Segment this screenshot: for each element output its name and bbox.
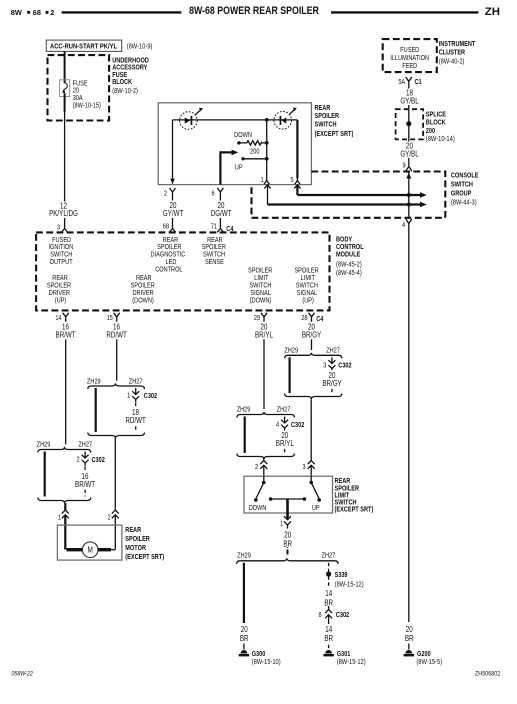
body control module box (dashed) — [36, 232, 329, 310]
svg-text:PK/YL/DG: PK/YL/DG — [49, 210, 78, 218]
svg-text:C302: C302 — [336, 611, 350, 619]
svg-text:058W-22: 058W-22 — [12, 671, 34, 678]
svg-text:SWITCH: SWITCH — [451, 181, 473, 189]
svg-text:29: 29 — [254, 314, 261, 322]
svg-text:GY/BL: GY/BL — [400, 151, 418, 159]
svg-text:GY/BL: GY/BL — [400, 98, 418, 106]
rear spoiler motor box — [57, 525, 122, 560]
svg-text:(8W-15-12): (8W-15-12) — [335, 581, 364, 589]
svg-text:BR/WT: BR/WT — [56, 332, 77, 340]
lamp right (illumination LED) — [274, 112, 292, 130]
svg-text:20: 20 — [308, 324, 315, 332]
TOP RIGHT — [383, 39, 476, 171]
svg-text:2: 2 — [108, 514, 112, 522]
wire ZH29 branch (thick) — [95, 388, 97, 432]
center bar — [271, 498, 305, 500]
svg-text:CONSOLE: CONSOLE — [451, 172, 479, 180]
svg-text:200: 200 — [250, 148, 260, 156]
wiper arm (from pin 6) — [220, 152, 232, 184]
connector C302 pin 1 — [135, 388, 137, 395]
svg-text:MODULE: MODULE — [336, 251, 360, 259]
svg-text:(UP): (UP) — [55, 297, 66, 305]
svg-text:REAR: REAR — [125, 527, 141, 535]
svg-text:20: 20 — [406, 626, 413, 634]
wire 20 GY/BL — [408, 139, 410, 161]
wire console pin 4 to G200 — [408, 228, 410, 622]
svg-text:REAR: REAR — [315, 104, 331, 112]
wire from switch pin 1 — [264, 185, 270, 188]
svg-text:18: 18 — [132, 409, 139, 417]
svg-text:(8W-15-5): (8W-15-5) — [416, 658, 442, 666]
svg-text:GROUP: GROUP — [451, 190, 472, 198]
svg-text:BLOCK: BLOCK — [112, 79, 132, 87]
svg-text:16: 16 — [82, 474, 89, 482]
node junctions on GY/BL feed — [407, 193, 411, 197]
svg-text:16: 16 — [113, 324, 120, 332]
wire 16 BR/WT (ZH27) — [84, 467, 86, 497]
wire left leg to pin 2 — [172, 120, 174, 184]
svg-text:3: 3 — [323, 362, 327, 370]
ground G301 — [325, 650, 332, 653]
svg-text:ZH27: ZH27 — [322, 552, 336, 560]
svg-text:BR/YL: BR/YL — [276, 440, 294, 448]
svg-text:8: 8 — [318, 611, 322, 619]
svg-text:BR/WT: BR/WT — [75, 482, 96, 490]
svg-text:INSTRUMENT: INSTRUMENT — [439, 40, 476, 48]
merge brace (RD/WT) — [88, 433, 145, 439]
svg-text:(8W-15-12): (8W-15-12) — [337, 658, 366, 666]
svg-text:(EXCEPT SRT): (EXCEPT SRT) — [125, 554, 164, 562]
svg-text:S339: S339 — [335, 571, 348, 579]
svg-text:OUTPUT: OUTPUT — [50, 258, 73, 266]
svg-text:SWITCH: SWITCH — [315, 121, 337, 129]
wire ZH29 branch (thick) to G300 — [243, 563, 245, 623]
GROUNDS — [237, 228, 443, 666]
wire 18 GY/BL — [408, 86, 410, 109]
svg-text:ZH27: ZH27 — [129, 378, 143, 386]
svg-text:ZH27: ZH27 — [326, 347, 340, 355]
svg-text:(8W-10-15): (8W-10-15) — [73, 102, 101, 110]
resistor 200 — [237, 141, 240, 144]
rear spoiler limit switch box — [244, 476, 333, 513]
svg-text:1: 1 — [280, 520, 284, 528]
svg-text:20: 20 — [406, 143, 413, 151]
svg-text:2: 2 — [255, 463, 259, 471]
svg-text:16: 16 — [62, 324, 69, 332]
CONSOLE GROUP — [252, 172, 479, 230]
svg-text:(EXCEPT SRT): (EXCEPT SRT) — [315, 131, 354, 139]
svg-text:ACC-RUN-START PK/YL: ACC-RUN-START PK/YL — [50, 43, 117, 51]
svg-text:BR/YL: BR/YL — [255, 332, 273, 340]
header rule right — [331, 11, 479, 13]
svg-text:C302: C302 — [144, 392, 158, 400]
merge brace (BR/GY) — [285, 394, 342, 400]
svg-text:8W-68 POWER REAR SPOILER: 8W-68 POWER REAR SPOILER — [189, 5, 319, 17]
node junction on bus — [265, 118, 269, 122]
svg-text:15: 15 — [107, 314, 114, 322]
wire 18 RD/WT (ZH27) — [135, 403, 137, 432]
splice S339 — [326, 571, 331, 576]
connector C302 pin 3 — [331, 357, 333, 363]
svg-text:SENSE: SENSE — [205, 258, 224, 266]
node FUSED ILLUMINATION FEED (dashed box) — [383, 39, 437, 72]
svg-text:(8W-10-9): (8W-10-9) — [127, 43, 153, 51]
svg-text:UP: UP — [235, 164, 243, 172]
svg-text:20: 20 — [284, 532, 291, 540]
svg-text:ZH506802: ZH506802 — [475, 670, 501, 678]
wire 20 DG/WT — [219, 196, 221, 225]
wire down to limit switch pin 3 — [310, 399, 312, 461]
DOWN contact — [263, 476, 265, 482]
svg-text:(8W-10-14): (8W-10-14) — [426, 136, 455, 144]
merge brace (BR/WT) — [38, 498, 91, 504]
console switch group box (dashed, wraps around switch) — [252, 172, 446, 218]
wire ACC to fuse — [64, 51, 66, 83]
svg-text:BLOCK: BLOCK — [426, 119, 446, 127]
svg-text:C302: C302 — [338, 362, 352, 370]
wire to motor pin 2 — [114, 438, 116, 510]
wire right leg to pin 1 — [266, 120, 268, 178]
wire 20 BR — [287, 525, 289, 548]
motor M rear spoiler — [82, 542, 98, 558]
wire ZH29 branch (thick) — [289, 357, 291, 393]
svg-text:BR/GY: BR/GY — [302, 332, 322, 340]
wire UP contact — [241, 157, 244, 160]
svg-text:(8W-45-2): (8W-45-2) — [336, 261, 362, 269]
svg-text:RD/WT: RD/WT — [106, 332, 127, 340]
svg-text:18: 18 — [406, 90, 413, 98]
svg-text:5: 5 — [290, 177, 294, 185]
wire 20 GY/WT — [172, 196, 174, 225]
svg-text:FUSED: FUSED — [400, 47, 419, 55]
svg-text:2: 2 — [76, 456, 80, 464]
svg-text:ZH29: ZH29 — [37, 441, 51, 449]
limit switch pin 1 below — [286, 513, 289, 520]
svg-text:5A: 5A — [398, 78, 406, 86]
ground G200 — [405, 650, 412, 653]
wire 20 BR/YL (ZH27) — [284, 432, 286, 454]
svg-text:68: 68 — [33, 8, 41, 17]
FOOTER — [12, 670, 501, 678]
svg-text:G200: G200 — [417, 650, 431, 658]
wire top bus — [173, 119, 298, 121]
wire 16 RD/WT from pin 15 — [116, 321, 118, 381]
svg-text:BR: BR — [240, 635, 249, 643]
svg-text:1: 1 — [260, 177, 264, 185]
wire right leg pin 5 — [296, 120, 298, 178]
svg-text:71: 71 — [211, 223, 218, 231]
svg-text:14: 14 — [325, 590, 332, 598]
svg-text:20: 20 — [329, 372, 336, 380]
fuse 20 30A — [60, 80, 70, 97]
svg-text:(DOWN): (DOWN) — [132, 297, 153, 305]
svg-text:BR: BR — [283, 541, 292, 549]
svg-text:(8W-15-10): (8W-15-10) — [252, 658, 281, 666]
svg-text:UP: UP — [312, 504, 320, 512]
svg-text:DG/WT: DG/WT — [211, 211, 232, 219]
svg-text:ILLUMINATION: ILLUMINATION — [390, 55, 429, 63]
svg-text:BR/GY: BR/GY — [322, 380, 342, 388]
svg-text:SPLICE: SPLICE — [426, 111, 446, 119]
splice block 200 (dashed box) — [396, 109, 424, 139]
BCM — [36, 232, 364, 323]
svg-text:DOWN: DOWN — [234, 131, 252, 139]
svg-text:14: 14 — [55, 314, 62, 322]
svg-text:ZH27: ZH27 — [78, 441, 92, 449]
wire ZH29 branch (thick) — [44, 452, 46, 497]
svg-text:1: 1 — [127, 392, 131, 400]
node ACC-RUN-START PK/YL — [46, 40, 121, 51]
svg-text:BR: BR — [324, 635, 333, 643]
svg-text:BR: BR — [405, 635, 414, 643]
header rule left — [62, 11, 182, 13]
svg-text:20: 20 — [241, 626, 248, 634]
svg-text:ZH29: ZH29 — [87, 378, 101, 386]
svg-text:ZH27: ZH27 — [277, 406, 291, 414]
LIMIT CHAINS — [237, 321, 374, 555]
svg-text:ZH: ZH — [485, 6, 500, 18]
svg-text:3: 3 — [57, 224, 61, 232]
svg-text:(8W-10-2): (8W-10-2) — [112, 88, 138, 96]
wire 14 BR — [328, 622, 330, 650]
svg-text:RD/WT: RD/WT — [125, 417, 146, 425]
underhood accessory fuse block (dashed) — [48, 55, 110, 120]
svg-text:20: 20 — [218, 203, 225, 211]
svg-text:(EXCEPT SRT): (EXCEPT SRT) — [335, 506, 374, 514]
svg-text:(DOWN): (DOWN) — [250, 297, 271, 305]
svg-text:DOWN: DOWN — [249, 504, 267, 512]
svg-text:CLUSTER: CLUSTER — [439, 49, 466, 57]
wire to BCM pin 3 — [64, 218, 66, 225]
svg-text:8W: 8W — [11, 8, 22, 17]
svg-text:C302: C302 — [291, 421, 305, 429]
connector C302 pin 4 — [284, 417, 286, 424]
HEADER — [11, 5, 500, 17]
wire ZH29 branch (thick) — [244, 417, 246, 454]
merge brace (BR/YL) — [237, 454, 295, 460]
SPOILER SWITCH — [158, 103, 353, 233]
wire ZH27 branch to S339 — [328, 563, 330, 572]
svg-text:200: 200 — [426, 127, 436, 135]
svg-text:(8W-45-4): (8W-45-4) — [336, 269, 362, 277]
BCM internal labels — [47, 236, 319, 304]
svg-text:20: 20 — [281, 432, 288, 440]
wire from switch pin 5 — [294, 185, 300, 188]
svg-text:FEED: FEED — [402, 63, 417, 71]
svg-text:1: 1 — [58, 514, 62, 522]
svg-text:2: 2 — [164, 190, 168, 198]
svg-text:20: 20 — [170, 203, 177, 211]
svg-text:C1: C1 — [415, 78, 423, 86]
wire 14 BR — [328, 577, 330, 607]
rear spoiler switch box (EXCEPT SRT) — [158, 103, 311, 185]
svg-text:M: M — [88, 545, 93, 555]
wire 20 BR/YL from pin 29 — [263, 321, 265, 409]
svg-text:4: 4 — [276, 421, 280, 429]
MOTOR CHAINS — [37, 321, 164, 561]
svg-text:SPOILER: SPOILER — [125, 536, 150, 544]
svg-text:ZH29: ZH29 — [237, 406, 251, 414]
svg-text:28: 28 — [301, 314, 308, 322]
wire 20 BR/GY from pin 28 — [311, 321, 313, 350]
svg-text:ZH29: ZH29 — [284, 347, 298, 355]
motor pin 1 — [64, 503, 66, 510]
UP contact — [310, 476, 312, 482]
svg-text:2: 2 — [50, 8, 54, 17]
svg-text:MOTOR: MOTOR — [125, 545, 146, 553]
LEFT FEED — [46, 40, 152, 232]
svg-text:20: 20 — [261, 324, 268, 332]
lamp left (illumination LED) — [180, 112, 198, 130]
connector C302 pin 2 — [84, 452, 86, 459]
svg-text:68: 68 — [163, 223, 170, 231]
svg-text:4: 4 — [402, 221, 406, 229]
svg-text:(UP): (UP) — [302, 297, 313, 305]
svg-text:G301: G301 — [337, 650, 351, 658]
svg-text:(8W-40-2): (8W-40-2) — [439, 58, 465, 66]
svg-text:SPOILER: SPOILER — [315, 113, 340, 121]
svg-text:G300: G300 — [252, 650, 266, 658]
ground G300 — [241, 650, 248, 653]
svg-text:(8W-44-3): (8W-44-3) — [451, 199, 477, 207]
svg-text:GY/WT: GY/WT — [163, 211, 184, 219]
svg-text:ZH29: ZH29 — [237, 552, 251, 560]
svg-text:9: 9 — [402, 162, 406, 170]
svg-text:3: 3 — [302, 463, 306, 471]
wire 20 BR/GY (ZH27) — [331, 372, 333, 394]
wire 16 BR/WT from pin 14 — [65, 321, 67, 444]
svg-text:14: 14 — [325, 626, 332, 634]
wire GY/BL through console — [408, 172, 410, 218]
svg-text:6: 6 — [211, 190, 215, 198]
svg-text:CONTROL: CONTROL — [155, 266, 183, 274]
svg-text:C302: C302 — [92, 456, 106, 464]
